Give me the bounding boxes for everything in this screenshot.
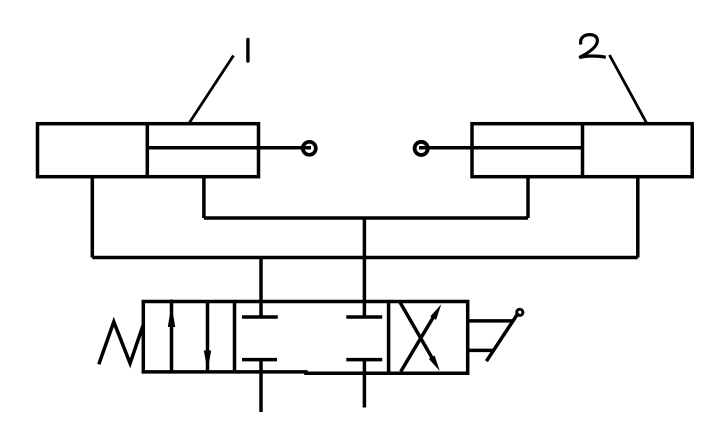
label 1 digit xyxy=(246,40,249,62)
wire: cylinder 2 inner port drop xyxy=(526,177,530,218)
valve bottom port T stub xyxy=(363,360,367,408)
spring return actuator xyxy=(99,322,143,365)
wire: inner crossover line xyxy=(204,216,528,220)
lever bottom link xyxy=(468,349,493,353)
lever knob circle xyxy=(517,309,523,315)
valve right position crossed arrow descending xyxy=(400,302,440,371)
cylinder 1 rod xyxy=(147,146,311,150)
cylinder 2 body xyxy=(472,124,692,177)
valve center blocked port bottom-left bar xyxy=(242,358,277,362)
valve center blocked port top-right bar xyxy=(346,315,382,319)
wire: outer crossover line xyxy=(92,256,638,260)
wire: cylinder 2 outer port drop xyxy=(636,177,640,258)
label 2 digit xyxy=(579,35,606,58)
cylinder 1 body xyxy=(38,124,259,177)
cylinder 2 rod xyxy=(419,146,583,150)
valve right position crossed arrow ascending xyxy=(401,304,442,371)
wire: valve port B riser xyxy=(363,218,367,317)
valve V1 body xyxy=(143,302,467,374)
label 1 leader line xyxy=(190,56,234,123)
wire: cylinder 1 outer port drop xyxy=(91,177,95,258)
valve left position flow arrow up xyxy=(168,300,175,372)
valve position divider right xyxy=(387,302,391,372)
cylinder 1 piston xyxy=(146,124,150,177)
valve bottom port P stub xyxy=(259,360,263,412)
wire: valve port A riser xyxy=(259,258,263,318)
cylinder 1 rod end circle xyxy=(303,142,316,155)
valve left position flow arrow down xyxy=(204,302,211,374)
cylinder 2 piston xyxy=(581,124,585,177)
label 2 leader line xyxy=(610,55,647,123)
valve center blocked port bottom-right bar xyxy=(346,358,382,362)
lever top link xyxy=(468,319,512,323)
valve position divider left xyxy=(233,302,237,372)
cylinder 2 rod end circle xyxy=(415,142,428,155)
wire: cylinder 1 inner port drop xyxy=(202,177,206,218)
lever arm xyxy=(486,313,518,361)
valve center blocked port top-left bar xyxy=(242,315,278,319)
